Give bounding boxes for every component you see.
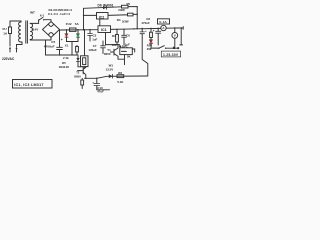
svg-text:100uF: 100uF: [88, 48, 97, 52]
voltmeter PV: [172, 27, 178, 46]
potentiometer RP1: [120, 48, 135, 65]
svg-text:K-1: K-1: [40, 14, 45, 18]
wire negative drop: [46, 40, 78, 55]
svg-text:2/3W: 2/3W: [118, 8, 125, 12]
svg-text:D6 IN4001: D6 IN4001: [98, 3, 114, 7]
svg-text:R5: R5: [127, 2, 131, 6]
svg-text:IC1, IC3 LM317: IC1, IC3 LM317: [14, 83, 44, 87]
node rail j131: [133, 28, 134, 29]
svg-text:C5: C5: [51, 40, 55, 44]
svg-text:2 4k: 2 4k: [63, 56, 69, 60]
wire output plus: [180, 27, 183, 45]
transistor T1 8050: [111, 44, 125, 59]
svg-text:T1: T1: [107, 48, 111, 52]
label FU 1A: [3, 27, 8, 36]
wire aux vertical: [83, 8, 85, 30]
svg-text:+: +: [153, 29, 155, 33]
capacitor C6 1uF: [122, 29, 127, 45]
note box IC list: [13, 80, 53, 89]
transformer T secondary: [30, 24, 32, 40]
svg-text:0~1A: 0~1A: [159, 20, 167, 24]
resistor RX: [76, 45, 79, 55]
wire bottom rail: [85, 76, 148, 78]
fuse FU2: [70, 28, 77, 31]
svg-text:IC1: IC1: [101, 28, 107, 32]
svg-text:~14V: ~14V: [31, 28, 39, 32]
meter scale box 0-1A: [158, 19, 170, 24]
wire primary bottom: [17, 42, 23, 45]
diode D5 1N4148: [76, 55, 84, 67]
wire LED common: [67, 42, 79, 56]
wire secondary top: [30, 20, 38, 23]
svg-text:V: V: [174, 34, 176, 38]
svg-text:C1-C4 .1uF×4: C1-C4 .1uF×4: [48, 12, 70, 16]
transistor T2 8050: [78, 67, 87, 79]
fuse FU 1A: [9, 21, 12, 46]
capacitor C5 4700uF: [57, 30, 63, 56]
svg-text:13.5V: 13.5V: [106, 68, 114, 72]
LED D green: [76, 29, 79, 42]
svg-text:R1: R1: [112, 34, 116, 38]
resistor R5: [122, 5, 139, 29]
svg-text:IC2: IC2: [99, 15, 104, 19]
label C4 1uF: [92, 33, 97, 41]
wire output minus line: [151, 47, 158, 49]
transformer T primary: [19, 22, 22, 42]
label FU2 5A: [66, 22, 80, 26]
svg-text:R4: R4: [117, 18, 121, 22]
wire adj bus: [106, 45, 122, 48]
svg-text:RP1: RP1: [122, 44, 128, 48]
resistor R8 5.1K: [117, 75, 124, 78]
svg-text:INT: INT: [30, 10, 35, 14]
switch K: [38, 17, 44, 20]
svg-text:5.1K: 5.1K: [117, 80, 124, 84]
relay J1: [81, 56, 89, 67]
capacitor C8 470uF: [156, 28, 161, 45]
svg-text:X1: X1: [65, 43, 69, 47]
svg-text:D1-D4 IN5401×4: D1-D4 IN5401×4: [49, 8, 73, 12]
wire AC top: [10, 21, 21, 22]
svg-text:2/3W: 2/3W: [122, 20, 129, 24]
svg-text:1N4148: 1N4148: [59, 65, 70, 69]
resistor R7: [81, 78, 84, 88]
resistor R1 120: [116, 29, 119, 46]
svg-text:FU2: FU2: [66, 22, 72, 26]
diode D6: [84, 6, 122, 9]
transformer core: [26, 21, 28, 43]
LED D red: [65, 29, 68, 41]
resistor R4: [124, 13, 137, 16]
wire switch to bridge: [44, 20, 51, 22]
AC plug prong L: [9, 47, 11, 52]
capacitor C10 47uF: [92, 78, 109, 90]
ammeter PA: [161, 25, 166, 30]
svg-text:120: 120: [112, 43, 117, 47]
AC plug prong N: [15, 45, 17, 53]
svg-text:C6: C6: [126, 34, 130, 38]
capacitor C4 1uF: [88, 29, 93, 41]
svg-text:8050: 8050: [74, 74, 81, 78]
svg-text:220VAC: 220VAC: [2, 57, 15, 61]
switch K2: [158, 46, 179, 49]
resistor R9 and LED red: [149, 28, 152, 48]
wire main rail left: [60, 29, 99, 31]
regulator IC2: [84, 13, 125, 31]
wire IC1 adj: [105, 33, 107, 45]
svg-text:1.25-30V: 1.25-30V: [163, 53, 179, 57]
capacitor C9: [140, 28, 148, 76]
svg-text:+: +: [145, 29, 147, 33]
svg-text:47uF: 47uF: [97, 90, 104, 94]
svg-text:8050: 8050: [104, 52, 111, 56]
zener W1: [109, 74, 113, 78]
capacitor C7 100uF: [101, 41, 106, 54]
wire secondary bottom to bridge: [30, 38, 51, 41]
regulator IC1: [98, 26, 111, 33]
svg-text:4700uF: 4700uF: [44, 45, 55, 49]
svg-text:1uF: 1uF: [92, 37, 97, 41]
wire main rail right: [111, 27, 184, 30]
bridge rectifier: [43, 22, 60, 38]
svg-text:R8: R8: [118, 71, 122, 75]
svg-text:470uF: 470uF: [141, 21, 150, 25]
wire relay feed: [84, 29, 86, 56]
svg-text:+: +: [61, 38, 63, 42]
label box 1.25-30V: [161, 51, 180, 57]
